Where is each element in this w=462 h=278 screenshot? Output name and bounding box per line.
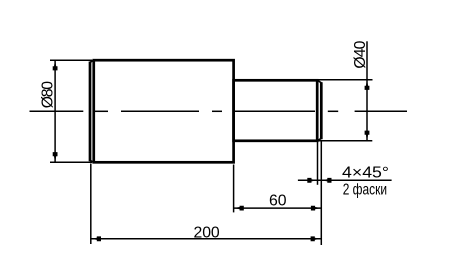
- svg-text:Ø40: Ø40: [352, 40, 369, 68]
- svg-text:60: 60: [269, 193, 287, 210]
- svg-text:200: 200: [194, 224, 220, 241]
- svg-text:2 фаски: 2 фаски: [343, 181, 387, 198]
- svg-text:4×45°: 4×45°: [342, 165, 389, 182]
- svg-text:Ø80: Ø80: [40, 81, 57, 108]
